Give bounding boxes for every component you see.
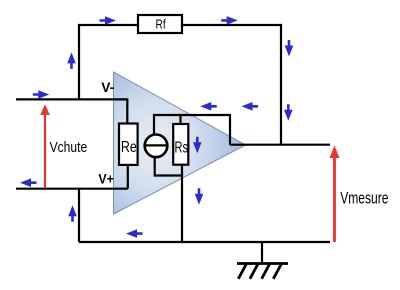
- svg-text:Rs: Rs: [175, 139, 189, 156]
- svg-text:Re: Re: [121, 139, 137, 156]
- svg-text:Rf: Rf: [156, 17, 167, 32]
- svg-text:Vmesure: Vmesure: [340, 189, 388, 207]
- svg-text:V-: V-: [101, 80, 114, 95]
- svg-text:V+: V+: [98, 172, 114, 187]
- svg-text:Vchute: Vchute: [50, 140, 88, 156]
